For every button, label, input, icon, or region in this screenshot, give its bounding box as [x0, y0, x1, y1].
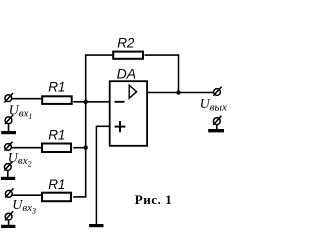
ground terminal of output	[213, 116, 221, 130]
ground terminal of input 2	[4, 162, 12, 178]
wire non-inverting input	[96, 125, 110, 127]
wire R1 input3 to bus	[73, 196, 86, 198]
resistor R1 (input 2)	[42, 144, 71, 153]
wire non-inverting to ground vertical	[95, 126, 97, 225]
op-amp DA	[110, 81, 147, 146]
ground bar input 2	[1, 177, 15, 180]
ground bar (non-inverting input)	[89, 224, 104, 227]
resistor R2	[113, 52, 143, 59]
input terminal Uvx3	[5, 188, 13, 197]
wire R2 right horizontal	[145, 54, 180, 56]
svg-text:Рис. 1: Рис. 1	[135, 192, 173, 207]
junction node bus / R1 input2	[84, 146, 88, 150]
ground bar input 1	[1, 131, 16, 134]
wire input2 to R1	[12, 147, 42, 149]
resistor R1 (input 1)	[42, 96, 71, 104]
wire bus top to R2 left	[85, 54, 112, 56]
svg-text:R2: R2	[117, 35, 135, 50]
plus sign (non-inverting input)	[115, 121, 126, 132]
wire R1 input1 to node A	[73, 101, 86, 103]
wire summing bus vertical	[85, 54, 87, 197]
svg-text:R1: R1	[48, 128, 65, 143]
input terminal Uvx1	[4, 93, 13, 103]
wire op-amp output	[147, 92, 213, 94]
ground terminal of input 1	[5, 115, 13, 132]
ground terminal of input 3	[5, 211, 13, 225]
svg-text:R1: R1	[48, 79, 65, 94]
junction node A (inverting input)	[84, 100, 88, 104]
wire R1 input2 to bus	[73, 147, 86, 149]
junction output node	[176, 90, 180, 94]
wire inverting input	[85, 101, 110, 103]
amplifier triangle symbol inside DA	[129, 85, 136, 98]
svg-text:DA: DA	[117, 66, 136, 82]
output terminal Uvyx	[213, 87, 221, 96]
input terminal Uvx2	[4, 142, 12, 151]
wire input1 to R1	[12, 98, 42, 100]
minus sign (inverting input)	[115, 101, 125, 103]
ground bar output	[208, 129, 224, 132]
wire feedback vertical to output node	[178, 54, 180, 93]
wire input3 to R1	[12, 194, 41, 196]
svg-text:R1: R1	[48, 177, 65, 192]
ground bar input 3	[1, 225, 15, 228]
resistor R1 (input 3)	[42, 193, 71, 202]
